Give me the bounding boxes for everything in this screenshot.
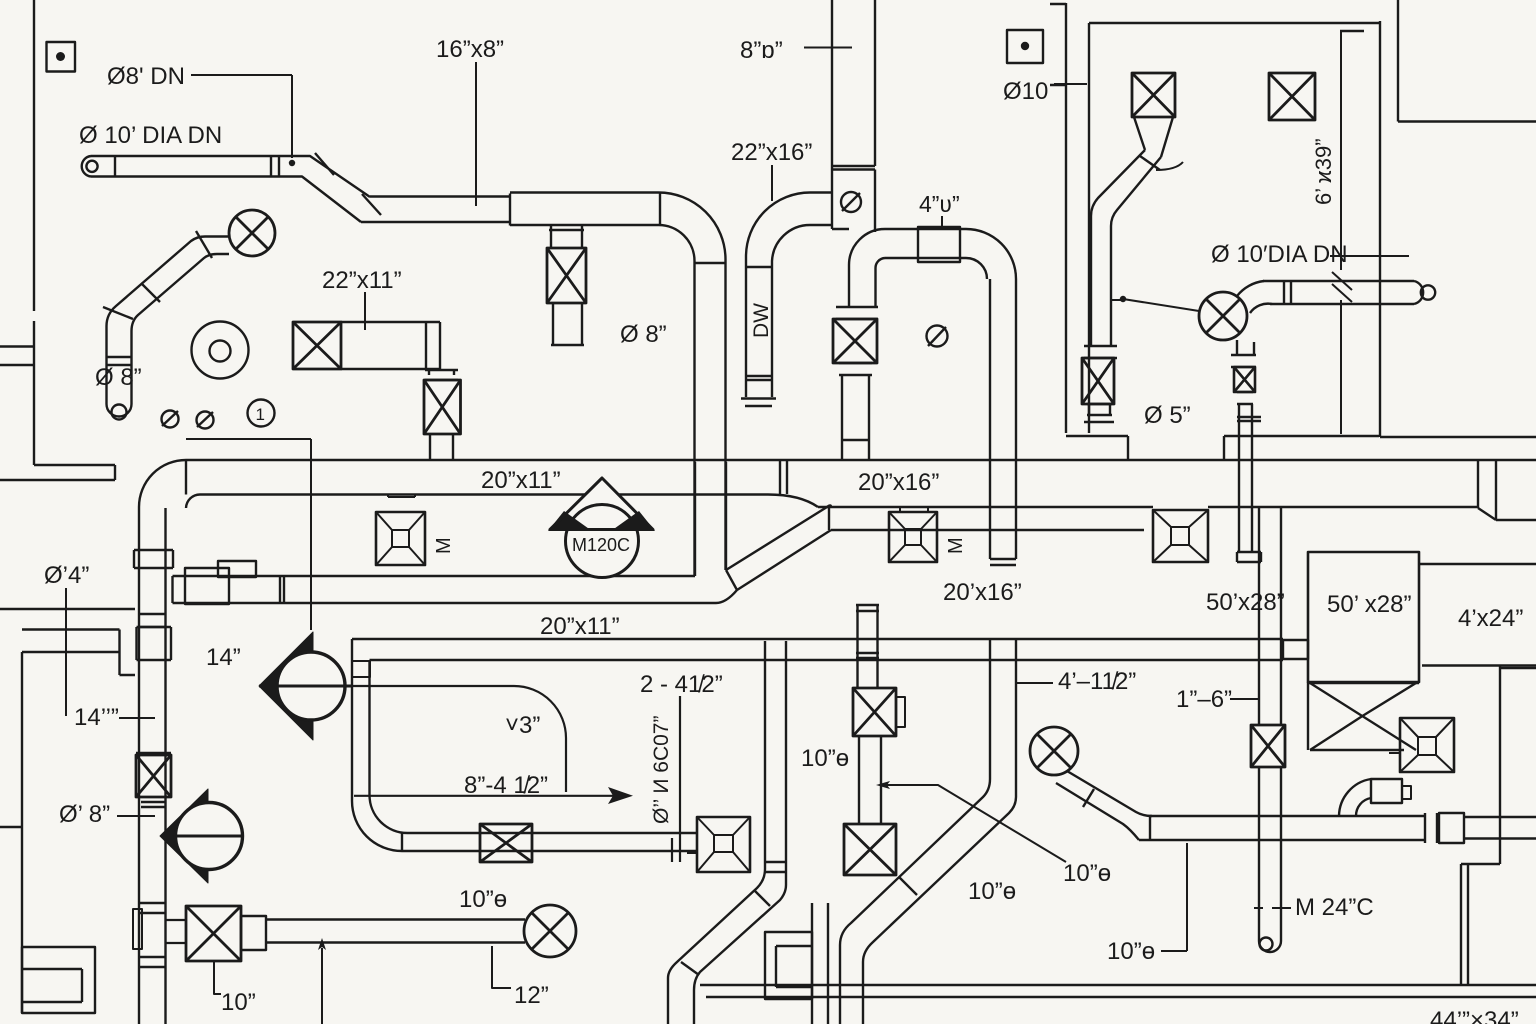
svg-text:M 24”C: M 24”C <box>1295 894 1374 921</box>
label 12" with leader <box>492 946 549 1009</box>
svg-text:Ø 8”: Ø 8” <box>620 321 667 348</box>
wall right lower <box>1461 666 1536 985</box>
leader 2-4 1/2" <box>640 671 723 862</box>
svg-text:20’x16”: 20’x16” <box>943 579 1022 606</box>
wall top-right room right <box>1380 0 1536 437</box>
wall interior dimension line <box>1332 31 1352 434</box>
wall bottom long double <box>700 985 1536 997</box>
duct 4'x24" right <box>1419 564 1536 666</box>
svg-text:20”x11”: 20”x11” <box>540 613 620 640</box>
svg-text:M120C: M120C <box>572 535 630 555</box>
svg-text:8”ɒ”: 8”ɒ” <box>740 37 783 64</box>
wall top-right room top <box>1089 23 1380 31</box>
label Ø10 top <box>1003 78 1087 105</box>
wall left lower notch <box>0 465 135 1013</box>
svg-text:14’’”: 14’’” <box>74 704 119 731</box>
trunk 20x11 bottom line <box>200 461 818 507</box>
label 10"ø mid <box>968 878 1016 905</box>
duct b horizontal (y576-603) <box>173 561 738 604</box>
unit 50'x28" box <box>1308 552 1419 682</box>
svg-text:14”: 14” <box>206 644 241 671</box>
svg-text:DW: DW <box>750 303 773 338</box>
duct left leg down to trunk <box>833 265 878 459</box>
symbol supply fan M120C (triangle + circle) <box>548 478 655 578</box>
duct 10 vertical lower <box>859 736 881 824</box>
pyramid diffuser below trunk left <box>376 495 455 566</box>
svg-text:22”x11”: 22”x11” <box>322 267 402 294</box>
svg-text:2 - 41̸2”: 2 - 41̸2” <box>640 671 723 698</box>
damper X-box 10duct lower <box>844 824 896 875</box>
duct right leg down through trunks <box>990 279 1016 797</box>
arrow leader to 10 duct <box>876 781 1066 862</box>
svg-text:4’x24”: 4’x24” <box>1458 605 1523 632</box>
label 16"x8" <box>436 36 504 206</box>
wall bottom-left closet rectangles <box>22 947 95 1013</box>
damper X-box room duct <box>1082 346 1117 422</box>
flex line 3" <box>346 686 566 792</box>
label 20'x16" lower trunk <box>943 579 1022 606</box>
label 10"ø upper <box>801 745 849 772</box>
column box with dot (top-right) <box>1007 30 1043 63</box>
elbow collar up to pyramid P3 <box>1339 779 1411 816</box>
svg-text:Ø 8”: Ø 8” <box>95 364 142 391</box>
svg-text:44’”×34”: 44’”×34” <box>1430 1007 1519 1024</box>
svg-text:Ø 10’ DIA DN: Ø 10’ DIA DN <box>79 122 222 149</box>
damper X-box 10duct upper <box>853 688 905 736</box>
pipe Ø5 below circle-X <box>1231 340 1261 562</box>
duct vertical trunk top-center <box>832 0 875 232</box>
label M 24"C <box>1272 894 1374 921</box>
svg-text:˅3”: ˅3” <box>505 712 540 739</box>
duct U bottom elbow and run <box>352 795 697 851</box>
pipe Ø10 with round cap (room) <box>1237 256 1435 313</box>
svg-text:10”: 10” <box>221 989 256 1016</box>
duct diagonal right leg lower <box>840 779 1016 1024</box>
node circled 1 <box>248 400 275 427</box>
symbol Ø below arch <box>927 326 948 347</box>
label 8"ø with leader <box>740 37 852 64</box>
diffuser X-box room 2 <box>1269 73 1315 120</box>
symbol damper2 (triangle-circle left) <box>259 632 352 740</box>
label 10"ø run <box>459 886 507 913</box>
svg-text:Ø10: Ø10 <box>1003 78 1048 105</box>
label Ø 8" (pipe) <box>95 364 142 391</box>
symbol Ø near duct <box>841 192 861 212</box>
leader arrow up center-bottom <box>318 938 326 1024</box>
label Ø 5" <box>1144 402 1191 429</box>
duct 22x11 branch horizontal <box>341 322 454 375</box>
svg-text:12”: 12” <box>514 982 549 1009</box>
damper X-box 22x11 left <box>293 322 341 369</box>
label 10"ø bottom with leader <box>1107 843 1187 965</box>
diffuser circle-X top-left <box>229 210 275 256</box>
symbol ø ø pair <box>162 411 214 429</box>
label 22"x11" <box>322 267 402 330</box>
label Ø'4" with leader <box>44 562 89 716</box>
duct branch vertical x765 down <box>668 641 786 1024</box>
label 1"-6" with leader <box>1176 686 1258 713</box>
arrow 8"-4 1/2" <box>354 772 633 804</box>
label Ø8' DN <box>107 63 295 166</box>
label 10" with leader <box>214 961 256 1016</box>
pyramid diffuser P3 <box>1389 718 1454 772</box>
svg-text:Ø 10′DIA DN: Ø 10′DIA DN <box>1211 241 1348 268</box>
label 14" <box>206 644 241 671</box>
symbol damper3 (triangle-circle lower) <box>160 789 243 883</box>
trunk 20x16 bottom line right <box>818 506 1478 508</box>
rotated text N6C07 <box>650 716 673 824</box>
svg-text:Ø’4”: Ø’4” <box>44 562 89 589</box>
svg-text:Ø8' DN: Ø8' DN <box>107 63 185 90</box>
wall left vertical <box>0 0 34 465</box>
svg-text:4’–11̸2”: 4’–11̸2” <box>1058 668 1136 695</box>
duct riser transition 45 to lower duct <box>695 462 1144 590</box>
trunk right end flange <box>1478 460 1536 520</box>
damper X-box riser <box>136 755 171 807</box>
label Ø 8" riser <box>59 801 155 828</box>
stub duct 8" with damper below 16x8 run <box>547 225 586 345</box>
label Ø 10' DIA DN <box>1211 241 1348 268</box>
svg-text:20”x11”: 20”x11” <box>481 467 561 494</box>
svg-text:10”ɵ: 10”ɵ <box>1063 860 1111 887</box>
wall door frame bottom center <box>765 903 828 1024</box>
label 22"x16" <box>731 139 812 201</box>
label Ø10' DIA DN <box>79 122 222 149</box>
trunk 20x11 / 20x16 main top line <box>186 459 1536 461</box>
svg-text:Ø 5”: Ø 5” <box>1144 402 1191 429</box>
svg-text:20”x16”: 20”x16” <box>858 469 939 496</box>
svg-text:50’ x28”: 50’ x28” <box>1327 591 1412 618</box>
rotated dim text 9'4.68" <box>1311 138 1336 205</box>
column box with dot (top-left) <box>47 42 76 72</box>
diffuser circle-X room <box>1111 292 1247 340</box>
svg-text:Ø’’ И 6C07”: Ø’’ И 6C07” <box>650 716 673 824</box>
damper X-box bottom run <box>480 824 532 862</box>
label Ø 8" (stub) <box>620 321 667 348</box>
diffuser circle-X bottom right <box>1030 727 1078 775</box>
duct Ø10 round horizontal run with end cap <box>82 153 381 222</box>
svg-text:10”ɵ: 10”ɵ <box>801 745 849 772</box>
wall room bottom <box>1066 436 1536 460</box>
svg-text:6’ ϰ39”: 6’ ϰ39” <box>1311 138 1336 205</box>
pipe Ø8 branch from circle-X down-left <box>103 231 229 420</box>
pipe DW round elbow <box>741 193 832 407</box>
duct U 20x11 lower: top arm <box>352 639 1283 801</box>
label 14'''' with leader <box>74 704 155 731</box>
svg-text:10”ɵ: 10”ɵ <box>459 886 507 913</box>
unit hopper below box <box>1308 682 1419 750</box>
diffuser circle-X 10run <box>524 905 576 957</box>
svg-text:1: 1 <box>256 405 265 424</box>
duct horizontal bottom right <box>1139 813 1536 843</box>
pipe diagonal from circle to duct <box>1056 771 1152 840</box>
riser lower flanges <box>133 903 166 967</box>
label 4'-11/2" with leader <box>1016 668 1136 695</box>
svg-text:1”–6”: 1”–6” <box>1176 686 1232 713</box>
svg-text:10”ɵ: 10”ɵ <box>1107 938 1155 965</box>
svg-text:Ø’ 8”: Ø’ 8” <box>59 801 110 828</box>
diffuser X-box room 1 <box>1132 73 1175 117</box>
damper X-box above trunk <box>424 370 461 459</box>
label 50'x28" duct <box>1206 589 1285 616</box>
svg-text:50’x28”: 50’x28” <box>1206 589 1285 616</box>
damper X-box 10run left <box>166 906 242 961</box>
wall top-right room left <box>1050 3 1089 433</box>
duct 10 vertical center <box>856 605 879 688</box>
elbow 22x16 duct turning down <box>658 192 726 576</box>
svg-text:22”x16”: 22”x16” <box>731 139 812 166</box>
svg-text:10”ɵ: 10”ɵ <box>968 878 1016 905</box>
duct M24 riser <box>1251 508 1285 952</box>
trunk left elbow to riser <box>139 460 200 550</box>
pipe 10" run to circle <box>241 916 525 950</box>
collar lower trunk to 50x28 box <box>1283 640 1308 659</box>
column symbol circle <box>192 322 249 379</box>
svg-text:4”ʋ”: 4”ʋ” <box>919 191 960 217</box>
pyramid diffuser below trunk center <box>889 507 967 562</box>
label 20"x16" trunk <box>858 469 939 496</box>
svg-text:M: M <box>433 537 455 554</box>
svg-text:16”x8”: 16”x8” <box>436 36 504 63</box>
pyramid diffuser end of bottom run <box>687 817 750 872</box>
riser duct 14 left vertical <box>134 550 173 1024</box>
label 44x34 bottom right <box>1430 1007 1519 1024</box>
label 10"ø right <box>1063 860 1111 887</box>
label 20"x11" trunk <box>481 467 561 494</box>
leader from trunk to symbol2 <box>186 439 311 630</box>
duct 16x8 horizontal run <box>361 193 658 226</box>
duct arch with 4" collar <box>849 191 1016 279</box>
svg-text:M: M <box>945 537 967 554</box>
pyramid diffuser below trunk right <box>1153 510 1208 562</box>
label 20"x11" lower <box>540 613 620 640</box>
duct funnel below diffuser 1 <box>1091 117 1183 346</box>
